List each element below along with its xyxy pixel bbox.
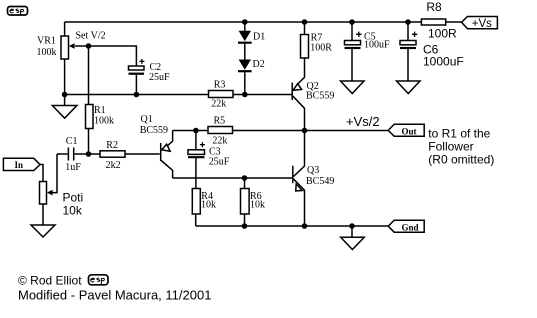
svg-text:Gnd: Gnd bbox=[402, 222, 419, 232]
diode D1 bbox=[238, 31, 252, 43]
svg-text:1uF: 1uF bbox=[65, 162, 81, 173]
wire: D2 to base node bbox=[244, 72, 246, 94]
svg-text:In: In bbox=[15, 160, 24, 170]
svg-text:R8: R8 bbox=[426, 0, 442, 14]
svg-text:R5: R5 bbox=[214, 116, 226, 127]
node: top rail / C6 bbox=[405, 19, 411, 25]
wire: R3 to Q2 base bbox=[233, 94, 292, 96]
transistor Q2 bbox=[292, 58, 304, 131]
wire: +Vs/2 line bbox=[173, 130, 389, 132]
note: to R1 of the Follower (R0 omitted) bbox=[428, 127, 494, 167]
wire: R6 top bbox=[244, 178, 246, 188]
wire: R8 to +Vs tag bbox=[446, 21, 461, 23]
svg-text:BC559: BC559 bbox=[140, 125, 168, 136]
svg-text:10k: 10k bbox=[201, 200, 216, 211]
svg-text:100k: 100k bbox=[94, 116, 114, 127]
resistor R2 bbox=[100, 151, 125, 157]
wire: top rail drop to VR1 bbox=[64, 22, 66, 36]
resistor R4 bbox=[192, 189, 200, 215]
svg-text:100R: 100R bbox=[310, 43, 332, 54]
svg-text:D1: D1 bbox=[253, 32, 265, 43]
node: VR1 bottom / ground bbox=[62, 92, 68, 98]
node: ground symbol / rail bbox=[349, 223, 355, 229]
transistor Q1 bbox=[161, 131, 173, 179]
capacitor C3 bbox=[188, 131, 205, 189]
ESP logo (credits) bbox=[89, 275, 109, 285]
wire: ground rail bottom bbox=[196, 225, 388, 227]
tag Gnd bbox=[388, 220, 424, 232]
capacitor C5 bbox=[345, 22, 361, 81]
svg-text:22k: 22k bbox=[212, 136, 227, 147]
node: top rail / C5 bbox=[349, 19, 355, 25]
wire: ground rail to R3 bbox=[65, 94, 209, 96]
wire: D1 to D2 bbox=[244, 44, 246, 60]
ground (below C6) bbox=[397, 81, 421, 94]
node: R6 / collector line bbox=[242, 175, 248, 181]
capacitor C6 bbox=[400, 22, 416, 81]
svg-text:+Vs/2: +Vs/2 bbox=[346, 114, 380, 129]
node: Q3 emitter / ground rail bbox=[302, 223, 308, 229]
svg-text:R1: R1 bbox=[94, 105, 106, 116]
capacitor C1 bbox=[68, 148, 73, 161]
resistor R3 bbox=[209, 91, 234, 98]
tag Out bbox=[388, 124, 424, 136]
diode D2 bbox=[238, 60, 252, 72]
svg-text:Modified - Pavel Macura, 11/20: Modified - Pavel Macura, 11/2001 bbox=[18, 288, 211, 303]
C6 polarity + bbox=[412, 32, 417, 37]
svg-text:100R: 100R bbox=[428, 26, 457, 40]
ground (bottom rail) bbox=[341, 226, 365, 250]
node: Q2/Q3 collectors on +Vs/2 bbox=[302, 128, 308, 134]
svg-text:Set V/2: Set V/2 bbox=[76, 31, 106, 42]
resistor R8 bbox=[421, 19, 445, 25]
node: C3 top bbox=[193, 128, 199, 134]
svg-text:C1: C1 bbox=[66, 136, 78, 147]
C3 polarity + bbox=[200, 142, 205, 147]
svg-text:R3: R3 bbox=[214, 80, 226, 91]
svg-text:100k: 100k bbox=[37, 47, 57, 58]
transistor Q3 bbox=[293, 131, 305, 227]
wire: junction down to R1 (crossover at bias rail) bbox=[88, 46, 90, 105]
resistor R6 bbox=[241, 189, 250, 215]
svg-text:+Vs: +Vs bbox=[472, 18, 492, 30]
svg-text:BC549: BC549 bbox=[306, 176, 334, 187]
wire: +Vs top rail bbox=[65, 21, 422, 23]
wire: VR1 wiper to C2 bbox=[75, 46, 136, 66]
svg-text:10k: 10k bbox=[250, 200, 265, 211]
svg-text:Q1: Q1 bbox=[141, 114, 153, 125]
ground (below C5) bbox=[341, 81, 365, 94]
node: R6 / ground rail bbox=[242, 223, 248, 229]
svg-text:2k2: 2k2 bbox=[106, 160, 121, 171]
wire: R1 to input node bbox=[88, 129, 90, 155]
node: top rail / R7 bbox=[302, 19, 308, 25]
potentiometer VR1 bbox=[61, 36, 75, 59]
svg-text:Out: Out bbox=[402, 126, 417, 136]
net tag +Vs bbox=[462, 17, 498, 30]
C5 polarity + bbox=[356, 32, 361, 37]
node: wiper/R1 junction bbox=[86, 43, 92, 49]
svg-text:Follower: Follower bbox=[428, 140, 473, 154]
svg-text:22k: 22k bbox=[211, 99, 226, 110]
svg-text:VR1: VR1 bbox=[37, 36, 56, 47]
svg-text:to R1 of the: to R1 of the bbox=[428, 127, 490, 141]
wire: Poti wiper to input line bbox=[53, 154, 58, 193]
capacitor C2 bbox=[129, 66, 145, 95]
wire: top rail to R7 bbox=[304, 22, 306, 35]
ground (below Poti) bbox=[31, 204, 55, 237]
wire: top rail to D1 bbox=[244, 22, 246, 31]
svg-text:Q3: Q3 bbox=[307, 165, 319, 176]
wire: R4 to ground rail bbox=[195, 214, 197, 226]
node: C2 / ground rail bbox=[134, 92, 140, 98]
ESP logo (top left) bbox=[8, 7, 28, 16]
svg-text:25uF: 25uF bbox=[209, 157, 230, 168]
wire: Q1 collector line bbox=[173, 177, 292, 179]
ground (below VR1) bbox=[52, 95, 77, 119]
svg-text:100uF: 100uF bbox=[364, 40, 390, 51]
svg-text:© Rod Elliot: © Rod Elliot bbox=[18, 274, 82, 288]
svg-text:10k: 10k bbox=[63, 204, 83, 218]
svg-text:25uF: 25uF bbox=[149, 72, 170, 83]
tag In bbox=[3, 158, 40, 170]
wire: input line to C1 bbox=[57, 153, 68, 155]
svg-text:BC559: BC559 bbox=[306, 91, 334, 102]
svg-text:D2: D2 bbox=[253, 59, 265, 70]
wire: R2 to Q1 base bbox=[125, 153, 160, 155]
svg-text:R2: R2 bbox=[106, 140, 118, 151]
node: C1 / R1 / R2 bbox=[86, 151, 92, 157]
wire: VR1 bottom to ground rail bbox=[64, 59, 66, 95]
svg-text:(R0 omitted): (R0 omitted) bbox=[428, 153, 494, 167]
resistor R5 bbox=[208, 127, 233, 134]
resistor R7 bbox=[301, 35, 309, 59]
wire: R6 to ground rail bbox=[244, 214, 246, 226]
svg-text:1000uF: 1000uF bbox=[423, 55, 464, 69]
svg-text:Poti: Poti bbox=[63, 191, 84, 205]
potentiometer Poti bbox=[40, 182, 53, 205]
resistor R1 bbox=[86, 105, 94, 129]
wire: C1 to R2 bbox=[75, 153, 101, 155]
wire: In tag to Poti bbox=[40, 165, 43, 182]
C2 polarity + bbox=[139, 59, 144, 64]
node: D2 / R3 / Q2 base bbox=[242, 92, 248, 98]
node: top rail / D1 bbox=[242, 19, 248, 25]
